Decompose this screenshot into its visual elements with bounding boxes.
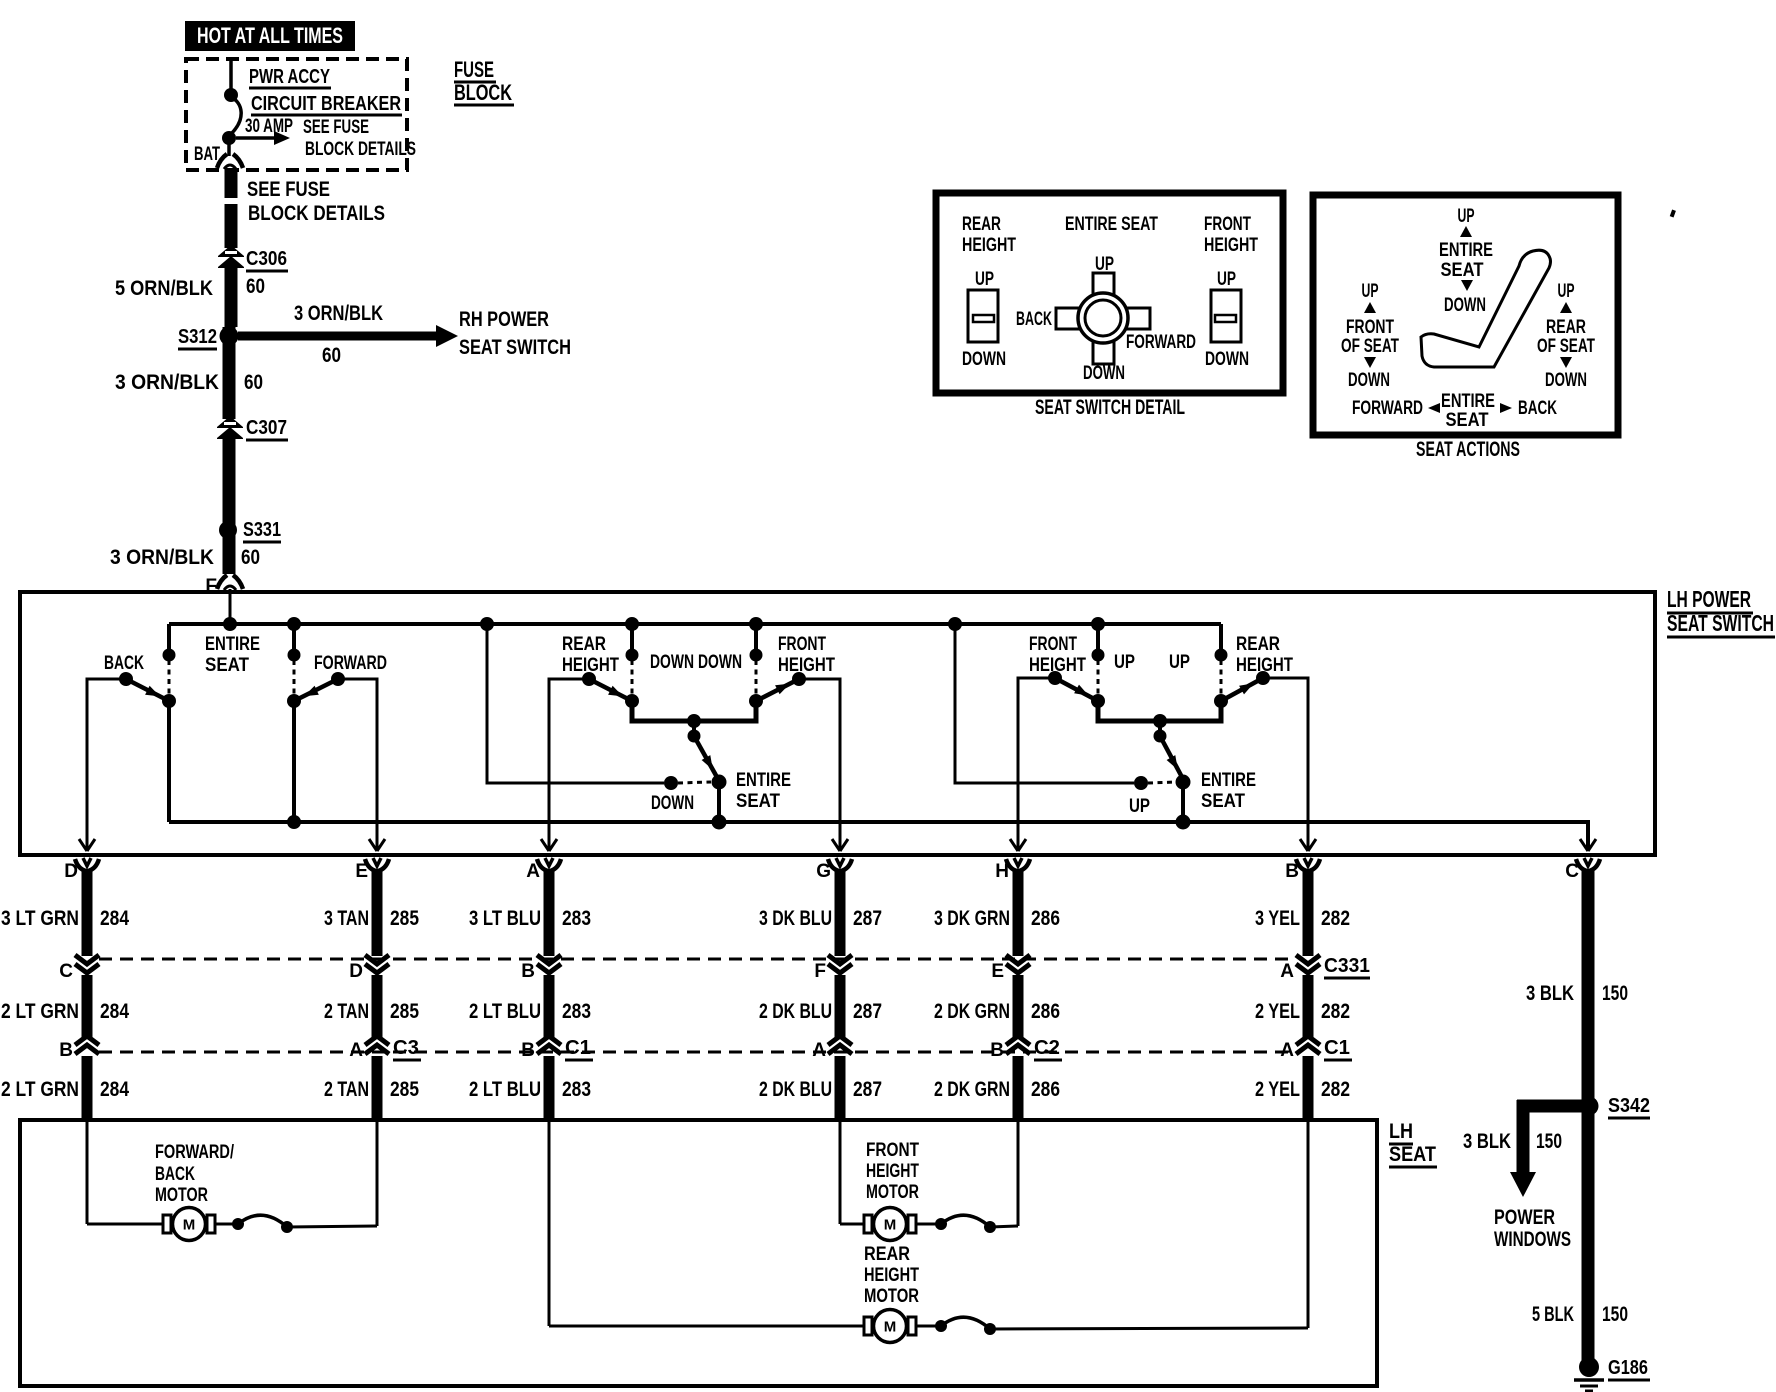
svg-text:2 TAN: 2 TAN: [324, 1078, 369, 1101]
svg-text:E: E: [991, 961, 1004, 982]
wire D to forward/back motor: [86, 1120, 89, 1224]
svg-text:3 BLK: 3 BLK: [1526, 982, 1574, 1005]
svg-text:HEIGHT: HEIGHT: [962, 235, 1016, 256]
svg-text:D: D: [349, 961, 363, 982]
svg-text:BACK: BACK: [1518, 398, 1557, 419]
svg-text:283: 283: [562, 1000, 591, 1023]
svg-text:SEAT: SEAT: [736, 791, 780, 812]
svg-text:LH: LH: [1389, 1120, 1413, 1143]
seat actions box: [1313, 195, 1618, 435]
svg-text:H: H: [995, 861, 1009, 882]
wire 2 DK BLU 287 to LH seat: [835, 1056, 846, 1120]
stray tick mark: [1670, 209, 1676, 217]
svg-text:283: 283: [562, 1078, 591, 1101]
svg-text:HEIGHT: HEIGHT: [1204, 235, 1258, 256]
LH SEAT box: [20, 1120, 1377, 1386]
svg-text:PWR ACCY: PWR ACCY: [249, 66, 330, 88]
svg-text:DOWN: DOWN: [1444, 295, 1486, 316]
switch FRONT HEIGHT (up): [1096, 624, 1100, 652]
svg-text:HEIGHT: HEIGHT: [778, 655, 835, 676]
svg-text:284: 284: [100, 1000, 129, 1023]
svg-text:3 LT BLU: 3 LT BLU: [469, 907, 541, 930]
svg-text:2 DK GRN: 2 DK GRN: [934, 1078, 1010, 1101]
svg-text:MOTOR: MOTOR: [155, 1185, 208, 1206]
wire 2 TAN 285 to LH seat: [372, 1056, 383, 1120]
svg-text:CIRCUIT BREAKER: CIRCUIT BREAKER: [251, 93, 401, 115]
junction dots on feed bus: [223, 617, 237, 631]
svg-text:ENTIRE: ENTIRE: [1439, 240, 1493, 261]
wire 3 LT BLU 283: [544, 869, 555, 956]
svg-text:LH POWER: LH POWER: [1667, 586, 1751, 612]
svg-text:DOWN: DOWN: [1083, 363, 1125, 384]
switch FORWARD: [292, 624, 296, 652]
splice S331: [219, 521, 237, 539]
svg-text:3 ORN/BLK: 3 ORN/BLK: [115, 371, 219, 394]
svg-text:SEAT SWITCH: SEAT SWITCH: [1667, 610, 1774, 636]
seat profile: [1421, 250, 1551, 367]
svg-text:FRONT: FRONT: [1346, 317, 1394, 338]
wire to H: [990, 1226, 1018, 1227]
svg-text:2 TAN: 2 TAN: [324, 1000, 369, 1023]
svg-text:UP: UP: [1129, 796, 1150, 817]
svg-text:DOWN: DOWN: [1205, 349, 1249, 370]
svg-text:UP: UP: [1558, 281, 1575, 302]
svg-text:OF SEAT: OF SEAT: [1537, 336, 1595, 357]
switch ENTIRE SEAT (down): [692, 721, 696, 733]
svg-text:3 ORN/BLK: 3 ORN/BLK: [294, 302, 383, 325]
connector C306: [218, 245, 244, 268]
connector pin C of LH power seat switch: [1576, 858, 1600, 871]
svg-text:285: 285: [390, 1000, 419, 1023]
svg-text:3 DK BLU: 3 DK BLU: [759, 907, 832, 930]
arrow: see fuse block details: [236, 136, 274, 140]
svg-text:3 BLK: 3 BLK: [1463, 1130, 1511, 1153]
svg-text:286: 286: [1031, 1000, 1060, 1023]
svg-text:S312: S312: [178, 326, 217, 348]
wire 3 BLK 150 to power windows: [1517, 1100, 1582, 1113]
svg-text:2 DK BLU: 2 DK BLU: [759, 1078, 832, 1101]
svg-text:FRONT: FRONT: [1204, 214, 1251, 235]
wire 2 YEL 282: [1303, 975, 1314, 1037]
svg-text:FRONT: FRONT: [866, 1140, 919, 1161]
svg-text:BLOCK: BLOCK: [454, 80, 512, 105]
svg-text:ENTIRE: ENTIRE: [205, 634, 260, 655]
wire 2 TAN 285: [372, 975, 383, 1037]
splice S312: [223, 327, 236, 419]
wire 3 DK GRN 286: [1013, 869, 1024, 956]
svg-text:B: B: [990, 1040, 1004, 1061]
svg-text:BLOCK DETAILS: BLOCK DETAILS: [248, 202, 385, 225]
connector A C3: [365, 1036, 389, 1054]
svg-text:5 BLK: 5 BLK: [1532, 1303, 1574, 1326]
svg-text:B: B: [521, 961, 535, 982]
svg-text:SEAT ACTIONS: SEAT ACTIONS: [1416, 438, 1520, 461]
svg-text:282: 282: [1321, 1000, 1350, 1023]
svg-text:C1: C1: [565, 1037, 591, 1059]
svg-text:150: 150: [1536, 1130, 1562, 1153]
LH POWER SEAT SWITCH box: [20, 592, 1655, 855]
circuit breaker PWR ACCY 30 AMP: [229, 59, 233, 90]
svg-text:60: 60: [244, 371, 263, 394]
connector A row 2: [828, 1036, 852, 1054]
motor forward/back: [163, 1208, 215, 1241]
connector A C331: [1296, 955, 1320, 973]
svg-text:UP: UP: [1217, 269, 1236, 290]
svg-text:BACK: BACK: [1016, 309, 1052, 330]
svg-text:3 YEL: 3 YEL: [1255, 907, 1300, 930]
svg-text:150: 150: [1602, 982, 1628, 1005]
connector C C331 row: [75, 955, 99, 973]
svg-text:HOT AT ALL TIMES: HOT AT ALL TIMES: [197, 23, 343, 48]
wire A to rear height motor: [548, 1120, 551, 1326]
svg-text:D: D: [64, 861, 78, 882]
svg-text:60: 60: [241, 546, 260, 569]
svg-text:UP: UP: [1114, 652, 1135, 673]
svg-text:C: C: [1565, 861, 1579, 882]
svg-text:HEIGHT: HEIGHT: [1029, 655, 1086, 676]
svg-text:SEAT: SEAT: [1441, 260, 1484, 281]
splice S342: [1580, 1097, 1599, 1116]
wire link bus to connector C: [1586, 822, 1588, 850]
svg-text:HEIGHT: HEIGHT: [562, 655, 619, 676]
wire to B: [990, 1328, 1308, 1329]
svg-text:S342: S342: [1608, 1095, 1650, 1117]
svg-text:UP: UP: [1362, 281, 1379, 302]
svg-text:FRONT: FRONT: [1029, 634, 1077, 655]
svg-text:UP: UP: [1458, 206, 1475, 227]
wire 2 DK GRN 286: [1013, 975, 1024, 1037]
svg-text:2 LT GRN: 2 LT GRN: [1, 1078, 79, 1101]
svg-text:OF SEAT: OF SEAT: [1341, 336, 1399, 357]
motor rear height: [864, 1310, 916, 1343]
svg-text:60: 60: [322, 344, 341, 367]
svg-text:60: 60: [246, 275, 265, 298]
connector pin D of LH power seat switch: [75, 858, 99, 871]
wire 3 TAN 285: [372, 869, 383, 956]
svg-text:287: 287: [853, 1078, 882, 1101]
common bar middle group: [632, 699, 756, 721]
svg-text:150: 150: [1602, 1303, 1628, 1326]
dashed connector row C3/C1/C2/C1: [99, 1051, 1296, 1054]
svg-text:DOWN: DOWN: [698, 652, 742, 673]
wire from fuse block: [225, 169, 238, 198]
svg-text:ENTIRE: ENTIRE: [1201, 770, 1256, 791]
svg-text:3 DK GRN: 3 DK GRN: [934, 907, 1010, 930]
svg-text:REAR: REAR: [864, 1244, 910, 1265]
svg-text:30 AMP: 30 AMP: [245, 116, 293, 137]
wire 2 LT GRN 284: [82, 975, 93, 1037]
arrow wire 3 ORN/BLK 60 to RH power seat switch: [238, 332, 437, 341]
svg-text:UP: UP: [1169, 652, 1190, 673]
link bus wire: [169, 820, 1588, 824]
svg-text:A: A: [812, 1040, 826, 1061]
svg-text:SEAT: SEAT: [1201, 791, 1245, 812]
svg-text:FORWARD: FORWARD: [1352, 398, 1423, 419]
switch REAR HEIGHT (down): [630, 624, 634, 652]
svg-text:C2: C2: [1034, 1037, 1060, 1059]
connector F into LH power seat switch: [217, 575, 243, 590]
motor front height: [864, 1208, 916, 1241]
svg-text:RH POWER: RH POWER: [459, 308, 549, 331]
svg-text:286: 286: [1031, 907, 1060, 930]
svg-text:ENTIRE: ENTIRE: [1441, 391, 1495, 412]
connector B C331 row: [537, 955, 561, 973]
wire G to front height motor: [839, 1120, 842, 1224]
svg-text:5 ORN/BLK: 5 ORN/BLK: [115, 277, 213, 300]
svg-text:SEE FUSE: SEE FUSE: [247, 178, 330, 201]
wire 5 ORN/BLK 60: [225, 268, 238, 327]
svg-text:C331: C331: [1324, 955, 1370, 977]
svg-text:C: C: [59, 961, 73, 982]
fuse block dashed box: [186, 59, 407, 170]
svg-text:DOWN: DOWN: [1348, 370, 1390, 391]
connector E C331 row: [1006, 955, 1030, 973]
svg-text:A: A: [526, 861, 540, 882]
switch FRONT HEIGHT (down): [754, 624, 758, 652]
svg-text:SEAT: SEAT: [205, 655, 249, 676]
svg-text:HEIGHT: HEIGHT: [864, 1265, 919, 1286]
svg-text:REAR: REAR: [962, 214, 1001, 235]
svg-text:SEE FUSE: SEE FUSE: [303, 117, 369, 138]
svg-text:WINDOWS: WINDOWS: [1494, 1228, 1571, 1251]
svg-text:DOWN: DOWN: [1545, 370, 1587, 391]
svg-text:2 LT BLU: 2 LT BLU: [469, 1000, 541, 1023]
common bar right group: [1098, 699, 1221, 721]
connector B C1: [537, 1036, 561, 1054]
svg-text:2 DK GRN: 2 DK GRN: [934, 1000, 1010, 1023]
svg-text:FORWARD: FORWARD: [1126, 332, 1196, 353]
svg-text:286: 286: [1031, 1078, 1060, 1101]
svg-text:SEAT SWITCH: SEAT SWITCH: [459, 336, 571, 359]
svg-text:MOTOR: MOTOR: [864, 1286, 919, 1307]
svg-text:C307: C307: [246, 417, 287, 439]
svg-text:UP: UP: [975, 269, 994, 290]
svg-text:ENTIRE SEAT: ENTIRE SEAT: [1065, 214, 1158, 235]
svg-text:S331: S331: [243, 519, 281, 541]
wire 3 BLK 150: [1582, 869, 1595, 1367]
svg-text:3 ORN/BLK: 3 ORN/BLK: [110, 546, 214, 569]
svg-text:282: 282: [1321, 1078, 1350, 1101]
wire 2 LT BLU 283 to LH seat: [544, 1056, 555, 1120]
svg-text:285: 285: [390, 1078, 419, 1101]
svg-text:284: 284: [100, 1078, 129, 1101]
svg-text:A: A: [1280, 1040, 1294, 1061]
svg-text:SEAT SWITCH DETAIL: SEAT SWITCH DETAIL: [1035, 396, 1185, 419]
svg-text:G186: G186: [1608, 1357, 1648, 1379]
inline splice jumper: [215, 1223, 238, 1226]
feed bus wire: [169, 622, 1221, 626]
svg-text:283: 283: [562, 907, 591, 930]
wire 3 LT GRN 284: [82, 869, 93, 956]
label: HOT AT ALL TIMES: [185, 21, 355, 51]
svg-text:BACK: BACK: [155, 1164, 195, 1185]
connector C307: [217, 416, 243, 439]
connector pin G of LH power seat switch: [828, 858, 852, 871]
svg-text:ENTIRE: ENTIRE: [736, 770, 791, 791]
svg-text:FORWARD: FORWARD: [314, 653, 387, 674]
svg-text:284: 284: [100, 907, 129, 930]
connector pin A of LH power seat switch: [537, 858, 561, 871]
connector A C1: [1296, 1036, 1320, 1054]
ground G186: [1579, 1357, 1599, 1377]
svg-text:F: F: [814, 961, 826, 982]
svg-text:DOWN: DOWN: [962, 349, 1006, 370]
switch BACK: [167, 624, 171, 652]
svg-text:C1: C1: [1324, 1037, 1350, 1059]
connector F C331 row: [828, 955, 852, 973]
wire 2 LT BLU 283: [544, 975, 555, 1037]
svg-text:BACK: BACK: [104, 653, 144, 674]
switch ENTIRE SEAT (up): [1158, 721, 1162, 733]
svg-text:SEAT: SEAT: [1389, 1143, 1436, 1166]
svg-text:2 YEL: 2 YEL: [1255, 1000, 1300, 1023]
svg-text:FRONT: FRONT: [778, 634, 826, 655]
svg-text:REAR: REAR: [1236, 634, 1280, 655]
svg-text:282: 282: [1321, 907, 1350, 930]
svg-text:C3: C3: [393, 1037, 419, 1059]
wire 2 DK BLU 287: [835, 975, 846, 1037]
svg-text:BLOCK DETAILS: BLOCK DETAILS: [305, 139, 416, 160]
svg-text:POWER: POWER: [1494, 1206, 1555, 1229]
svg-text:3 TAN: 3 TAN: [324, 907, 369, 930]
connector pin B of LH power seat switch: [1296, 858, 1320, 871]
svg-text:G: G: [816, 861, 831, 882]
wire 3 DK BLU 287: [835, 869, 846, 956]
svg-text:HEIGHT: HEIGHT: [866, 1161, 919, 1182]
svg-text:FORWARD/: FORWARD/: [155, 1142, 235, 1163]
svg-text:HEIGHT: HEIGHT: [1236, 655, 1293, 676]
svg-text:3 LT GRN: 3 LT GRN: [1, 907, 79, 930]
svg-text:C306: C306: [246, 248, 287, 270]
connector pin H of LH power seat switch: [1006, 858, 1030, 871]
svg-text:B: B: [59, 1040, 73, 1061]
connector B row 2: [75, 1036, 99, 1054]
svg-text:2 YEL: 2 YEL: [1255, 1078, 1300, 1101]
svg-text:B: B: [1285, 861, 1299, 882]
wire 3 YEL 282: [1303, 869, 1314, 956]
seat switch detail box: [936, 193, 1283, 393]
svg-text:REAR: REAR: [562, 634, 606, 655]
svg-text:2 LT BLU: 2 LT BLU: [469, 1078, 541, 1101]
connector B C2: [1006, 1036, 1030, 1054]
svg-text:MOTOR: MOTOR: [866, 1182, 919, 1203]
svg-text:B: B: [521, 1040, 535, 1061]
svg-text:285: 285: [390, 907, 419, 930]
svg-text:FUSE: FUSE: [454, 57, 494, 82]
svg-text:A: A: [349, 1040, 363, 1061]
svg-text:2 DK BLU: 2 DK BLU: [759, 1000, 832, 1023]
svg-text:2 LT GRN: 2 LT GRN: [1, 1000, 79, 1023]
inline splice jumper: [916, 1325, 941, 1328]
connector D C331 row: [365, 955, 389, 973]
inline splice jumper: [916, 1223, 941, 1226]
wire 2 LT GRN 284 to LH seat: [82, 1056, 93, 1120]
svg-text:287: 287: [853, 1000, 882, 1023]
svg-text:E: E: [355, 861, 368, 882]
svg-text:287: 287: [853, 907, 882, 930]
wire 2 YEL 282 to LH seat: [1303, 1056, 1314, 1120]
svg-text:REAR: REAR: [1546, 317, 1586, 338]
wire 2 DK GRN 286 to LH seat: [1013, 1056, 1024, 1120]
svg-text:A: A: [1280, 961, 1294, 982]
connector at fuse block exit: [217, 154, 243, 169]
dashed connector row C331: [99, 958, 1296, 961]
svg-text:DOWN: DOWN: [650, 652, 694, 673]
svg-text:SEAT: SEAT: [1446, 410, 1489, 431]
switch REAR HEIGHT (up): [1219, 624, 1223, 652]
wire to E: [287, 1226, 377, 1227]
connector pin E of LH power seat switch: [365, 858, 389, 871]
svg-text:DOWN: DOWN: [651, 793, 694, 814]
svg-text:BAT: BAT: [194, 144, 220, 165]
